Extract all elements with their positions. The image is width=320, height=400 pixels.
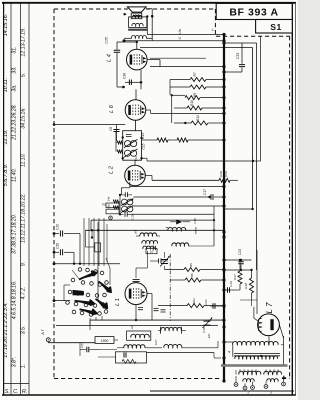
wire top speaker <box>146 8 152 10</box>
bus junction y43 <box>222 41 225 44</box>
coil bottom left A <box>239 371 261 374</box>
wire y214 long <box>131 213 214 215</box>
bus junction y290 <box>222 288 225 291</box>
svg-text:C17: C17 <box>203 189 207 195</box>
wire R16 right <box>230 179 238 181</box>
speaker voice coil <box>132 15 141 17</box>
terminal 2 <box>251 386 255 390</box>
junction border y300 <box>53 299 56 302</box>
resistor R11 <box>157 138 168 142</box>
wire L10 left <box>166 227 168 229</box>
wire C8 vert <box>116 125 118 142</box>
wire to bus 358 <box>214 357 221 359</box>
plus mark <box>282 376 286 380</box>
switch contact 15 <box>66 301 70 305</box>
svg-text:R.: R. <box>22 389 27 395</box>
wire C30 left <box>54 251 59 253</box>
chassis bar <box>221 364 288 367</box>
junction R18 top <box>250 269 252 271</box>
svg-text:TAL: TAL <box>102 203 107 207</box>
none <box>235 357 237 359</box>
wire vert 195 <box>195 227 197 234</box>
svg-text:C18: C18 <box>202 327 206 333</box>
svg-text:C36: C36 <box>123 73 127 79</box>
speaker frame marks <box>134 12 141 13</box>
junction 80-263 <box>79 263 81 265</box>
border left <box>3 2 5 396</box>
wire y161 link <box>253 160 261 162</box>
wire block1 br out <box>142 157 148 159</box>
wire vert 98 <box>97 222 99 301</box>
switch contact 21 <box>80 311 84 315</box>
switch left lead b <box>64 284 70 286</box>
switch contact 17 <box>84 303 88 307</box>
wire vert 92b <box>91 230 93 237</box>
wire L1 bottom <box>135 305 137 321</box>
dashed frame top-left <box>54 8 128 10</box>
bus junction 305 <box>222 304 225 307</box>
wire vert 85 <box>84 230 86 247</box>
svg-text:BF 393 A: BF 393 A <box>229 7 278 19</box>
switch lead up x99 <box>98 218 100 266</box>
wire C23 top <box>240 260 242 261</box>
junction block1 tl <box>122 136 124 138</box>
bus junction y40.7 <box>222 39 225 42</box>
svg-text:5.: 5. <box>21 73 27 77</box>
junction R7 bus <box>223 78 226 81</box>
svg-text:R6: R6 <box>190 273 194 277</box>
wire y197 long <box>133 196 209 198</box>
wire cap2b r <box>127 213 131 215</box>
bus junction y87 <box>222 85 225 88</box>
bus junction y320.1 <box>222 319 225 322</box>
switch lead up x89 <box>88 218 90 266</box>
wire L1 heater drop <box>151 294 153 321</box>
wire RA right <box>200 269 224 271</box>
svg-text:Ua: Ua <box>178 29 182 34</box>
wire cap osc l <box>150 260 159 262</box>
bus junction 269 <box>222 268 225 271</box>
switch contact 14 <box>103 293 107 297</box>
capacitor C24 <box>87 347 89 353</box>
wire y161 long <box>147 160 253 162</box>
svg-text:3: 3 <box>270 391 272 395</box>
switch contact 7 <box>90 282 94 286</box>
capacitor C35 <box>114 50 121 52</box>
wire R10 right <box>202 107 224 109</box>
lead t1b <box>244 384 246 387</box>
svg-text:R17: R17 <box>233 274 237 280</box>
wire y320 long <box>90 319 224 321</box>
wire R7 left <box>170 79 190 81</box>
tube L1 <box>125 283 147 305</box>
svg-text:R7: R7 <box>193 72 197 76</box>
wire cl b <box>157 235 161 237</box>
none <box>160 161 162 175</box>
bus junction y97.6 <box>222 96 225 99</box>
tube L7 <box>258 314 280 336</box>
wire R9 right <box>206 86 224 88</box>
table line 2 <box>20 3 22 395</box>
table line 3 <box>28 3 30 395</box>
winding hatch left <box>240 370 256 373</box>
lead t1 <box>235 376 237 383</box>
svg-text:10.11.: 10.11. <box>3 78 9 93</box>
block2 cap top <box>125 192 127 197</box>
wire RA left <box>165 269 184 271</box>
table line 1 <box>10 3 12 395</box>
junction R17 top <box>239 259 241 261</box>
wire vert 252 <box>252 48 254 209</box>
coil cluster r2 <box>142 241 158 244</box>
wire AVC from dashed border <box>54 124 125 126</box>
wire RB right <box>201 279 224 281</box>
junction block1 tr <box>140 137 142 139</box>
switch contact 9 <box>105 281 109 285</box>
sheet box S1 <box>256 20 293 34</box>
svg-text:R21: R21 <box>192 298 196 304</box>
wire vert 171 <box>171 95 173 123</box>
junction border C10 <box>53 232 56 235</box>
svg-text:11.40.: 11.40. <box>12 168 18 182</box>
junction C36 <box>122 86 125 89</box>
switch lead up x84 <box>83 218 85 266</box>
wire vert 214 <box>213 206 215 246</box>
coil bottom right B <box>267 379 278 382</box>
none <box>146 48 148 60</box>
switch diag a <box>106 258 110 268</box>
junction 147 <box>146 15 148 17</box>
wire diode l <box>170 221 176 223</box>
junction 92-230 <box>91 229 93 231</box>
wire vert 232 <box>232 345 234 357</box>
bus junction y365 <box>222 363 225 366</box>
wire L9 right <box>145 347 162 349</box>
wire y306 left <box>210 305 224 307</box>
switch lead up x104 <box>103 218 105 266</box>
coil bottom left B <box>243 379 254 382</box>
terminal 3 <box>264 385 268 389</box>
svg-text:C23: C23 <box>238 249 242 255</box>
wire y270 <box>224 269 252 271</box>
output transformer secondary <box>131 36 146 39</box>
resistor R16a <box>113 206 119 210</box>
junction C23 bottom <box>240 269 242 271</box>
IF transformer T2 frame <box>123 131 142 161</box>
svg-text:R19: R19 <box>224 171 228 177</box>
wire y140 b <box>168 139 177 141</box>
wire RC right <box>204 305 224 307</box>
svg-text:12.19.: 12.19. <box>3 130 9 145</box>
svg-text:L 7: L 7 <box>265 302 274 314</box>
wire L7 grid diag <box>254 318 258 321</box>
svg-text:R10: R10 <box>190 100 194 106</box>
bus lower end <box>223 367 225 381</box>
switch contact 1 <box>78 268 82 272</box>
wire C23 bottom <box>240 265 242 271</box>
coil L8 frame <box>127 331 151 340</box>
svg-text:17.19.20.21.1.2.22.3.4.: 17.19.20.21.1.2.22.3.4. <box>3 302 9 357</box>
wire vert 256 <box>256 43 258 270</box>
wire block2 left vert <box>119 196 121 214</box>
wire vert 91 <box>90 220 92 230</box>
junction 252-209 <box>251 208 253 210</box>
wire block1 left vert <box>115 131 117 152</box>
cap under L1 c <box>161 310 166 312</box>
wire cap osc r <box>161 260 168 262</box>
wire vert 80 bottom <box>79 343 81 356</box>
resistor RB <box>185 278 201 282</box>
wire C24 right <box>90 349 101 351</box>
svg-text:3a.: 3a. <box>12 84 18 91</box>
bus junction y123 <box>222 121 225 124</box>
bus junction y232 <box>222 230 225 233</box>
junction block2 tr <box>131 199 133 201</box>
wire R18 top <box>251 270 253 278</box>
switch diag b <box>72 270 80 280</box>
svg-text:32n: 32n <box>207 333 211 338</box>
switch left lead <box>63 285 65 301</box>
wire L1 top <box>135 281 137 282</box>
wire vert 147 <box>146 16 148 34</box>
wire L5 top <box>135 89 137 99</box>
junction 214-220 <box>213 219 215 221</box>
wire vert 218b <box>217 341 219 348</box>
wire y209 <box>224 208 253 210</box>
coil L11 <box>164 344 182 347</box>
junction 74-263 <box>73 263 75 265</box>
junction 98-230 <box>97 229 99 231</box>
wire RC left <box>158 305 187 307</box>
table header sep <box>4 383 29 385</box>
svg-text:U4: U4 <box>130 325 134 329</box>
svg-text:21.22.23.26.28.: 21.22.23.26.28. <box>12 104 18 141</box>
bus junction y34.5 <box>222 33 225 36</box>
lead t3 <box>265 382 267 385</box>
wire y220 long <box>91 219 214 221</box>
wire y186 long <box>130 186 224 188</box>
resistor R16 on bus <box>219 178 230 182</box>
wire y300 right <box>240 299 257 301</box>
bus junction y206 <box>222 204 225 207</box>
resistor R20 <box>122 359 136 363</box>
wire from A terminal <box>48 342 95 344</box>
switch lead down 3 <box>101 316 103 320</box>
speaker left lead <box>124 13 126 15</box>
capacitor C21 <box>213 303 215 309</box>
wire L7 grid <box>256 250 258 314</box>
svg-text:4: 4 <box>228 351 232 353</box>
junction 171 <box>171 94 173 96</box>
wire L1 heater <box>147 293 152 295</box>
coil cluster r4 <box>143 246 154 249</box>
svg-text:C14: C14 <box>134 155 138 161</box>
junction L4 bottom <box>140 81 143 84</box>
coil cluster r3 <box>172 243 189 246</box>
small box R22 <box>95 243 101 252</box>
resistor R7 <box>190 78 206 82</box>
switch wiper 2 <box>99 282 112 293</box>
wire grid link <box>136 267 148 269</box>
bus junction y342 <box>222 340 225 343</box>
svg-text:C24: C24 <box>80 342 84 348</box>
svg-text:16a: 16a <box>107 204 111 209</box>
wire cl c <box>189 245 215 247</box>
dashed frame bottom-right <box>282 378 290 380</box>
junction border AVC <box>53 123 56 126</box>
svg-text:L 4: L 4 <box>106 54 112 62</box>
svg-text:3.5.: 3.5. <box>21 326 27 335</box>
switch contact 20 <box>72 310 76 314</box>
wire sec left <box>124 37 132 39</box>
svg-text:11.10.: 11.10. <box>21 153 27 167</box>
switch lead up x107 <box>106 224 108 262</box>
bus junction y260 <box>222 258 225 261</box>
resistor R8 <box>185 96 200 100</box>
dashed frame right <box>289 36 291 378</box>
T3 core line b <box>234 355 280 357</box>
wire vert 90 <box>89 320 91 330</box>
wire U to bus <box>152 40 224 42</box>
wire L7 cathode down <box>268 337 270 345</box>
svg-text:C10: C10 <box>56 224 60 230</box>
svg-text:37.38.9.17.18.20.: 37.38.9.17.18.20. <box>12 214 18 254</box>
resistor R13 <box>177 138 188 142</box>
wire vert 170 <box>169 80 171 96</box>
bus junction y72 <box>222 70 225 73</box>
lead cap2 r <box>128 194 133 196</box>
capacitor C17 <box>211 194 213 200</box>
bus junction y113.4 <box>222 112 225 115</box>
wire R17 top <box>239 260 241 271</box>
wire drop <box>159 60 161 67</box>
crystal box 2 <box>106 209 119 214</box>
wire y180 to bus <box>152 179 219 181</box>
wire C33 drop <box>241 43 243 64</box>
terminal 1b <box>243 386 247 390</box>
wire L2 to block2 <box>129 182 131 188</box>
border top <box>2 2 296 4</box>
terminal 1 <box>234 383 238 387</box>
svg-text:L.: L. <box>212 28 215 32</box>
winding hatch right <box>266 370 278 373</box>
resistor R17 <box>238 271 242 284</box>
resistor R14 <box>117 141 123 145</box>
switch contact 11 <box>76 292 80 296</box>
voice coil marks <box>133 14 140 16</box>
svg-text:C27: C27 <box>154 339 158 345</box>
wire osc coil lead r <box>181 330 186 332</box>
wire R12 left <box>174 122 191 124</box>
wire y140 c <box>188 139 224 141</box>
terminal TA <box>109 216 113 220</box>
svg-text:1.: 1. <box>21 364 27 368</box>
T3 core line a <box>234 353 280 355</box>
border bottom <box>2 394 296 396</box>
winding T3 bottom <box>235 356 278 359</box>
wire C36 row <box>125 81 141 83</box>
switch wiper 5 <box>96 299 108 308</box>
coil cluster r1 <box>140 233 157 236</box>
wire diode r <box>182 221 190 223</box>
bus junction y66.6 <box>222 65 225 68</box>
switch contact 4 <box>100 271 104 275</box>
border right outer <box>295 2 297 395</box>
wire R18 down2 <box>251 300 253 306</box>
svg-text:U: U <box>178 37 182 40</box>
wire L4 anode top <box>136 42 138 49</box>
speaker left dot <box>123 13 125 15</box>
switch contact 19 <box>101 303 105 307</box>
wire L5 to IF <box>135 120 137 130</box>
wire y58 <box>150 57 206 59</box>
wire C33 to bus <box>241 68 243 73</box>
diode arrow <box>176 220 182 225</box>
switch contact 5 <box>71 278 75 282</box>
wire R10 left <box>174 107 187 109</box>
lead R14 <box>116 142 117 144</box>
wire C35 upper <box>116 42 118 50</box>
resistor RC <box>187 304 204 308</box>
svg-text:R16: R16 <box>219 171 223 177</box>
junction L1 bottom <box>135 319 137 321</box>
wire y113 to bus <box>151 112 224 114</box>
junction block2 tl <box>119 194 121 196</box>
capacitor C10 <box>60 231 62 237</box>
wire y325 long <box>56 325 218 327</box>
svg-text:4.6.5.14.8.18.16.: 4.6.5.14.8.18.16. <box>12 281 18 320</box>
svg-text:L 6: L 6 <box>109 104 115 113</box>
wire block2 left drop <box>120 188 122 195</box>
svg-text:C18: C18 <box>131 214 135 220</box>
speaker right lead <box>151 9 153 17</box>
wire C10 right <box>64 233 80 235</box>
bus junction y381 <box>222 379 225 382</box>
wire grid drop <box>135 268 137 278</box>
none <box>186 230 214 232</box>
wire L2 heater <box>146 175 153 177</box>
trimmer C6 <box>160 256 170 267</box>
switch contact 18 <box>93 304 97 308</box>
dashed frame left <box>53 9 55 379</box>
switch right lead <box>109 268 111 285</box>
svg-text:C8: C8 <box>109 127 113 131</box>
bus junction y197 <box>222 195 225 198</box>
bus junction y140 <box>222 138 225 141</box>
svg-text:C16: C16 <box>193 218 197 224</box>
svg-text:4.7.2.: 4.7.2. <box>21 287 27 300</box>
svg-text:13.12.11.17.18.20.22.: 13.12.11.17.18.20.22. <box>21 193 27 243</box>
wire vert 152 <box>151 16 153 31</box>
grid cap L1 <box>133 279 140 281</box>
capacitor C19 <box>228 287 230 293</box>
output transformer frame <box>129 17 147 28</box>
junction border C30 <box>53 251 56 254</box>
svg-text:uW: uW <box>134 230 138 235</box>
bus junction y270 <box>222 268 225 271</box>
svg-text:A T: A T <box>41 328 45 335</box>
wire C33 bottom <box>224 71 242 73</box>
junction block1 bl <box>122 157 124 159</box>
wire y230 long <box>85 229 224 231</box>
svg-text:R18: R18 <box>244 283 248 289</box>
switch lead down 2 <box>95 317 97 320</box>
switch contact 23 <box>98 312 102 316</box>
wire osc coil lead <box>158 330 161 332</box>
svg-text:14a: 14a <box>107 196 111 201</box>
svg-text:5.6.7.8.9.: 5.6.7.8.9. <box>3 164 9 186</box>
junction 253-161 <box>252 160 254 162</box>
